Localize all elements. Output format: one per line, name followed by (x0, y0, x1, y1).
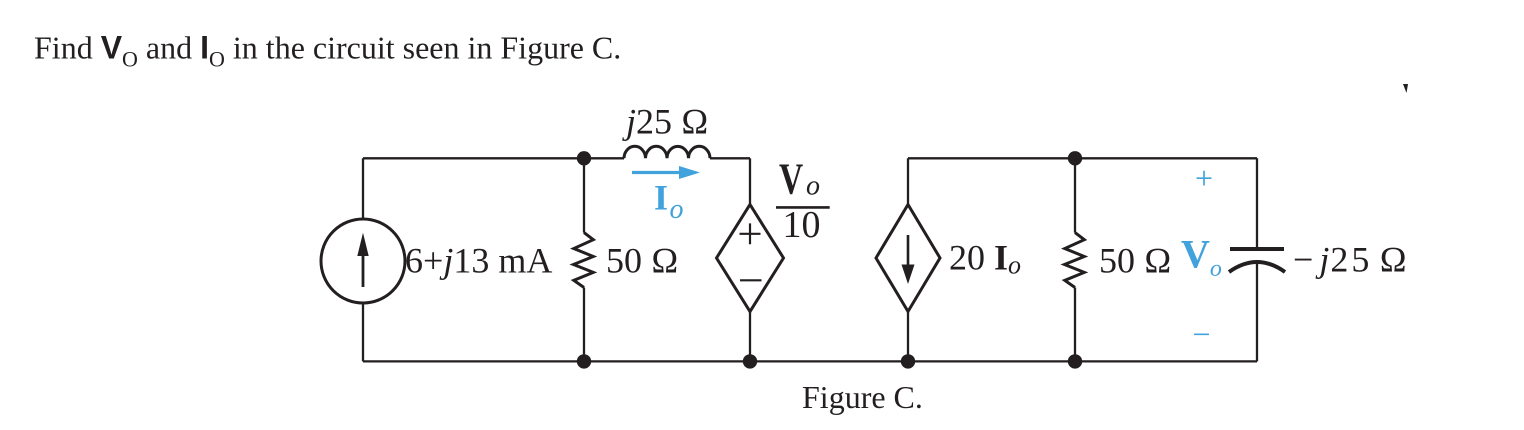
svg-text:+: + (1195, 160, 1213, 196)
dependent current source 20Io (diamond with down arrow) (876, 205, 940, 312)
svg-text:−: − (1193, 316, 1211, 352)
label Vo/10 fraction (776, 155, 830, 246)
wire: right vertical above capacitor (1256, 158, 1258, 247)
svg-text:50 Ω: 50 Ω (1099, 240, 1172, 280)
current source I1 (circle with up arrow) (321, 219, 405, 303)
svg-text:50 Ω: 50 Ω (606, 240, 679, 280)
svg-text:10: 10 (783, 204, 821, 246)
node dots on bottom rail (577, 354, 591, 368)
dependent voltage source (diamond with + and -) (717, 205, 784, 312)
wire: stub into dependent voltage source top (749, 158, 751, 206)
wire: bottom rail (363,361)-(1257,361) (363, 360, 1257, 362)
svg-text:j25 Ω: j25 Ω (622, 101, 709, 141)
node A (top junction dot) (577, 151, 591, 165)
svg-text:6+j13 mA: 6+j13 mA (405, 240, 552, 280)
wire: left vertical (363,157)-(363,361) through source (362, 158, 364, 361)
tick mark (stray apostrophe top right) (1403, 84, 1408, 93)
svg-text:V: V (779, 155, 803, 203)
resistor R1 50ohm (vertical zigzag at x=584) (583, 158, 585, 232)
wire: stub from dependent current source bottom (907, 311, 909, 361)
wire: stub from dependent voltage source bottom (749, 311, 751, 361)
node B (top junction dot right) (1068, 151, 1082, 165)
wire: right vertical below capacitor (1256, 263, 1258, 361)
Io current arrow (blue) (632, 166, 700, 179)
wire: right section top rail (908,157)-(1257,157) (908, 157, 1257, 159)
svg-text:o: o (806, 171, 820, 202)
capacitor C1 -j25ohm (1229, 249, 1285, 272)
svg-text:Figure C.: Figure C. (802, 379, 923, 415)
inductor L1 j25ohm (4 humps) (624, 146, 710, 158)
wire: top-left horizontal (363,157)-(750,157) (363, 157, 750, 159)
resistor R2 50ohm (vertical zigzag at x=1075) (1074, 158, 1076, 232)
wire: stub into dependent current source (907, 158, 909, 206)
